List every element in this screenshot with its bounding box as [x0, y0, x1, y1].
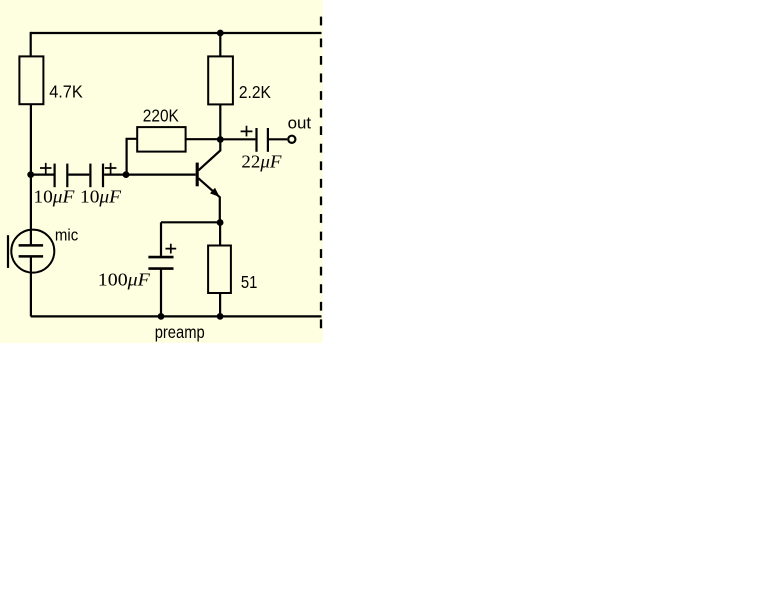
- svg-text:10μF: 10μF: [33, 186, 75, 206]
- svg-text:220K: 220K: [143, 106, 179, 126]
- svg-text:out: out: [288, 115, 312, 133]
- svg-text:preamp: preamp: [155, 322, 205, 342]
- svg-text:10μF: 10μF: [80, 186, 122, 206]
- svg-text:2.2K: 2.2K: [239, 82, 271, 102]
- svg-text:mic: mic: [55, 226, 78, 244]
- svg-text:22μF: 22μF: [241, 152, 282, 172]
- svg-text:100μF: 100μF: [98, 270, 151, 290]
- svg-text:4.7K: 4.7K: [49, 82, 83, 102]
- svg-text:51: 51: [241, 272, 258, 292]
